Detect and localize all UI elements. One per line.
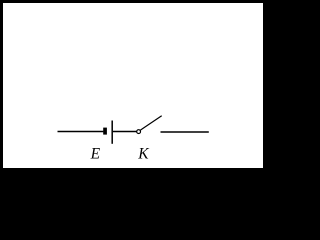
- wire left of battery: [58, 131, 104, 133]
- switch K pivot contact: [137, 130, 141, 134]
- svg-text:E: E: [90, 145, 101, 162]
- battery E positive plate (long thin): [111, 121, 113, 144]
- wire battery to switch: [113, 131, 137, 133]
- wire right of switch: [161, 131, 209, 133]
- battery E negative plate (short thick): [103, 128, 107, 135]
- switch K lever (open): [140, 116, 161, 130]
- svg-text:K: K: [137, 145, 149, 162]
